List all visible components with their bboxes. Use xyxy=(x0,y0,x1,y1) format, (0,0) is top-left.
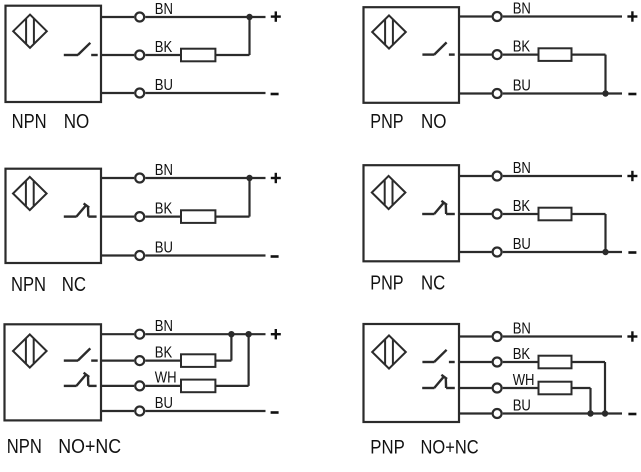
wire BU NPN NO+NC (box to terminal) xyxy=(101,410,134,412)
resistor load BK PNP NC xyxy=(539,208,572,221)
plus terminal PNP NC xyxy=(627,171,637,181)
svg-text:BU: BU xyxy=(513,77,531,94)
terminal circle BU NPN NO xyxy=(135,89,144,98)
wire BU to - rail NPN NO+NC xyxy=(145,410,265,412)
svg-text:BK: BK xyxy=(513,346,531,363)
terminal circle BU PNP NO+NC xyxy=(493,409,502,418)
svg-text:BK: BK xyxy=(155,39,173,56)
svg-text:BN: BN xyxy=(155,318,173,335)
wire BK resistor to dropper PNP NO+NC xyxy=(572,361,606,363)
wire BK terminal to resistor NPN NO+NC xyxy=(145,360,181,362)
plus terminal NPN NO+NC xyxy=(271,329,281,339)
wire BU to - rail PNP NO xyxy=(503,92,622,94)
terminal circle BU PNP NC xyxy=(493,248,502,257)
wire WH resistor to riser NPN NO+NC xyxy=(215,385,248,387)
svg-text:BN: BN xyxy=(513,160,531,177)
terminal circle BU PNP NO xyxy=(493,89,502,98)
wire resistor to riser NPN NC xyxy=(215,216,249,218)
riser BK to BN NPN NO+NC xyxy=(230,334,232,360)
junction dot on BU PNP NC xyxy=(602,249,608,255)
NO contact switch NPN NO+NC xyxy=(64,348,98,360)
resistor load WH NPN NO+NC xyxy=(181,380,215,393)
resistor load BK NPN NO+NC xyxy=(181,354,215,367)
NO contact switch PNP NO xyxy=(422,42,454,54)
junction dot BK on BN NPN NO+NC xyxy=(228,331,234,337)
wire WH terminal to resistor NPN NO+NC xyxy=(145,385,181,387)
svg-text:PNP: PNP xyxy=(370,272,403,294)
wire BU to - rail PNP NC xyxy=(503,251,622,253)
terminal circle BK PNP NO xyxy=(493,50,502,59)
junction dot on BN NPN NO xyxy=(246,14,252,20)
svg-text:BK: BK xyxy=(513,198,531,215)
wire BN to + rail NPN NO xyxy=(145,16,265,18)
dropper BK to BU PNP NO xyxy=(604,55,606,94)
proximity sensor symbol NPN NC xyxy=(13,177,47,210)
svg-text:NPN: NPN xyxy=(7,434,42,457)
terminal circle BU NPN NC xyxy=(135,251,144,260)
terminal circle BN NPN NC xyxy=(135,174,144,183)
terminal circle BK NPN NO xyxy=(135,51,144,60)
wire BN to + rail PNP NO xyxy=(503,15,622,17)
wire BU to - rail NPN NC xyxy=(145,254,265,256)
riser BK to BN NPN NC xyxy=(248,178,250,217)
wire BK PNP NO+NC (box to terminal) xyxy=(459,361,492,363)
wire BN to + rail NPN NO+NC xyxy=(145,333,265,335)
wire BK PNP NC (box to terminal) xyxy=(459,213,492,215)
wire BK NPN NC (box to terminal) xyxy=(101,216,134,218)
svg-text:NO+NC: NO+NC xyxy=(58,436,121,458)
resistor load BK NPN NC xyxy=(181,210,215,223)
plus terminal PNP NO+NC xyxy=(627,331,637,341)
wire BN NPN NO (box to terminal) xyxy=(101,16,134,18)
wire BU NPN NC (box to terminal) xyxy=(101,254,134,256)
svg-text:BK: BK xyxy=(155,200,173,217)
svg-text:PNP: PNP xyxy=(370,436,404,457)
terminal circle BN PNP NO xyxy=(493,12,502,21)
resistor load BK NPN NO xyxy=(181,49,215,62)
terminal circle BN PNP NC xyxy=(493,172,502,181)
wire BN PNP NC (box to terminal) xyxy=(459,175,492,177)
wire WH terminal to resistor PNP NO+NC xyxy=(503,387,539,389)
minus terminal PNP NO+NC xyxy=(628,413,636,416)
terminal circle BK NPN NO+NC xyxy=(135,356,144,365)
minus terminal NPN NO+NC xyxy=(271,411,279,414)
sensor body outline PNP NC xyxy=(364,165,460,261)
terminal circle WH NPN NO+NC xyxy=(135,381,144,390)
wire BN to + rail PNP NO+NC xyxy=(503,335,622,337)
terminal circle BU NPN NO+NC xyxy=(135,407,144,416)
wire BU to - rail NPN NO xyxy=(145,92,265,94)
resistor load BK PNP NO xyxy=(539,48,572,61)
wire BK terminal to resistor PNP NC xyxy=(503,213,539,215)
wire BN NPN NC (box to terminal) xyxy=(101,177,134,179)
svg-text:NO: NO xyxy=(421,109,446,132)
wire resistor to riser NPN NO xyxy=(215,54,249,56)
dropper BK to BU PNP NO+NC xyxy=(604,362,606,414)
svg-text:BK: BK xyxy=(513,38,531,55)
svg-text:BK: BK xyxy=(155,344,173,361)
svg-text:NPN: NPN xyxy=(11,272,46,295)
svg-text:BN: BN xyxy=(513,0,531,17)
NC contact switch PNP NC xyxy=(422,201,455,214)
terminal circle BN NPN NO xyxy=(135,13,144,22)
wire BN PNP NO+NC (box to terminal) xyxy=(459,335,492,337)
minus terminal PNP NO xyxy=(628,93,636,96)
terminal circle BK NPN NC xyxy=(135,212,144,221)
svg-text:NO: NO xyxy=(64,110,89,133)
terminal circle BK PNP NC xyxy=(493,210,502,219)
svg-text:NPN: NPN xyxy=(12,110,47,133)
wire BK terminal to resistor PNP NO+NC xyxy=(503,361,539,363)
minus terminal PNP NC xyxy=(628,251,636,254)
wire BU PNP NC (box to terminal) xyxy=(459,251,492,253)
wire WH resistor to dropper PNP NO+NC xyxy=(572,387,591,389)
terminal circle BN NPN NO+NC xyxy=(135,330,144,339)
wire BK terminal to resistor NPN NO xyxy=(145,54,181,56)
svg-text:NC: NC xyxy=(421,271,445,294)
svg-text:WH: WH xyxy=(155,370,177,387)
minus terminal NPN NC xyxy=(271,255,279,258)
wire BN to + rail PNP NC xyxy=(503,175,622,177)
plus terminal NPN NO xyxy=(271,11,281,21)
junction dot on BU PNP NO xyxy=(602,90,608,96)
svg-text:BN: BN xyxy=(155,162,173,179)
svg-text:NC: NC xyxy=(62,272,86,295)
svg-text:BU: BU xyxy=(513,236,531,253)
sensor body outline NPN NC xyxy=(6,169,102,263)
NC contact switch NPN NC xyxy=(64,203,97,216)
sensor body outline NPN NO xyxy=(6,6,102,102)
minus terminal NPN NO xyxy=(271,93,279,96)
terminal circle BK PNP NO+NC xyxy=(493,358,502,367)
wire resistor to dropper PNP NC xyxy=(572,213,606,215)
wire BK resistor to riser NPN NO+NC xyxy=(215,360,231,362)
wire BN to + rail NPN NC xyxy=(145,177,265,179)
wire BN PNP NO (box to terminal) xyxy=(459,15,492,17)
wire BU NPN NO (box to terminal) xyxy=(101,92,134,94)
junction dot BK on BU PNP NO+NC xyxy=(602,410,608,416)
plus terminal NPN NC xyxy=(271,173,281,183)
dropper WH to BU PNP NO+NC xyxy=(589,388,591,414)
terminal circle WH PNP NO+NC xyxy=(493,384,502,393)
junction dot on BN NPN NC xyxy=(246,175,252,181)
svg-text:BU: BU xyxy=(155,77,173,94)
riser BK to BN NPN NO xyxy=(248,17,250,55)
sensor body outline NPN NO+NC xyxy=(5,324,102,420)
wire BK NPN NO (box to terminal) xyxy=(101,54,134,56)
wire BU PNP NO+NC (box to terminal) xyxy=(459,412,492,414)
NC contact switch PNP NO+NC xyxy=(422,375,455,388)
wire BK terminal to resistor NPN NC xyxy=(145,216,181,218)
junction dot WH on BU PNP NO+NC xyxy=(587,410,593,416)
svg-text:BU: BU xyxy=(155,239,173,256)
svg-text:BN: BN xyxy=(155,1,173,18)
svg-text:PNP: PNP xyxy=(370,110,403,132)
wire BK NPN NO+NC (box to terminal) xyxy=(101,360,134,362)
wire resistor to dropper PNP NO xyxy=(572,53,606,55)
sensor body outline PNP NO+NC xyxy=(364,324,460,422)
svg-text:NO+NC: NO+NC xyxy=(421,436,479,458)
svg-text:WH: WH xyxy=(513,372,535,389)
junction dot WH on BN NPN NO+NC xyxy=(245,331,251,337)
terminal circle BN PNP NO+NC xyxy=(493,332,502,341)
svg-text:BN: BN xyxy=(513,320,531,337)
sensor body outline PNP NO xyxy=(364,7,460,103)
NC contact switch NPN NO+NC xyxy=(64,373,97,386)
wire BU to - rail PNP NO+NC xyxy=(503,412,622,414)
svg-text:BU: BU xyxy=(513,397,531,414)
plus terminal PNP NO xyxy=(627,11,637,21)
resistor load WH PNP NO+NC xyxy=(539,382,572,395)
wire BU PNP NO (box to terminal) xyxy=(459,92,492,94)
wire WH PNP NO+NC (box to terminal) xyxy=(459,387,492,389)
svg-text:BU: BU xyxy=(155,395,173,412)
proximity sensor symbol PNP NO+NC xyxy=(372,335,406,368)
wire WH NPN NO+NC (box to terminal) xyxy=(101,385,134,387)
dropper BK to BU PNP NC xyxy=(604,214,606,252)
NO contact switch PNP NO+NC xyxy=(422,350,454,362)
proximity sensor symbol PNP NC xyxy=(372,176,406,209)
riser WH to BN NPN NO+NC xyxy=(248,334,250,386)
proximity sensor symbol PNP NO xyxy=(372,15,406,48)
wire BK terminal to resistor PNP NO xyxy=(503,53,539,55)
proximity sensor symbol NPN NO xyxy=(13,15,47,48)
wire BN NPN NO+NC (box to terminal) xyxy=(101,333,134,335)
resistor load BK PNP NO+NC xyxy=(539,356,572,369)
wire BK PNP NO (box to terminal) xyxy=(459,53,492,55)
NO contact switch NPN NO xyxy=(64,43,98,55)
proximity sensor symbol NPN NO+NC xyxy=(13,334,47,367)
